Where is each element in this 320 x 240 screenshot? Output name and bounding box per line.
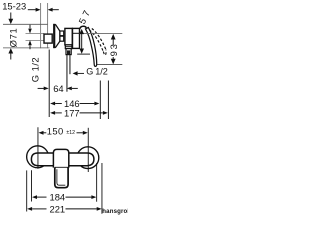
ext line right circle center: [87, 128, 89, 172]
ext line top (93): [80, 32, 123, 34]
ext line escutcheon bottom: [3, 47, 50, 49]
escutcheon cone: [55, 24, 60, 48]
svg-text:184: 184: [50, 192, 66, 203]
ext line x100: [99, 81, 101, 120]
svg-text:177: 177: [64, 108, 80, 119]
valve body: [73, 28, 80, 48]
lever (solid): [86, 27, 97, 66]
cartridge housing: [65, 28, 72, 45]
svg-text:±12: ±12: [66, 130, 75, 136]
ext line escutcheon top: [3, 23, 48, 25]
svg-text:93: 93: [108, 42, 119, 56]
pipe lines (grey): [26, 32, 45, 34]
small dim arrows G1/2 pipe: [29, 25, 31, 29]
dim 57: [79, 29, 84, 34]
transition collar: [65, 45, 72, 49]
body inner top line: [73, 32, 80, 34]
right escutcheon circle: [77, 147, 99, 169]
dim 146: [50, 102, 55, 106]
hose nipple: [66, 49, 71, 55]
svg-text:221: 221: [50, 203, 66, 214]
handle dome: [80, 26, 87, 29]
union nut small: [60, 31, 64, 41]
s-union nut: [44, 34, 52, 43]
label G 1/2 (right): [73, 71, 78, 75]
dim O71: [10, 13, 12, 20]
dim 184: [32, 195, 37, 199]
dim 93: [111, 34, 116, 40]
escutcheon face: [53, 24, 55, 48]
left escutcheon circle: [27, 146, 49, 168]
svg-text:G 1/2: G 1/2: [30, 57, 41, 82]
ext line left circle center: [37, 127, 39, 169]
ext line x108: [107, 81, 109, 120]
ext lines below: [30, 170, 32, 201]
lever (dashed alternate position): [89, 29, 106, 56]
svg-text:Ø71: Ø71: [7, 28, 18, 48]
svg-text:64: 64: [53, 83, 63, 94]
dim 150 +-12: [39, 131, 44, 135]
dim 177: [50, 111, 55, 115]
svg-text:150: 150: [47, 126, 64, 137]
wall construction line (right): [47, 3, 49, 48]
svg-text:G 1/2: G 1/2: [86, 67, 108, 77]
ext line x49: [48, 50, 50, 118]
dim 64: [38, 87, 44, 89]
dim 221: [27, 207, 32, 211]
ext line bottom (93): [97, 64, 122, 66]
body capsule: [31, 153, 94, 166]
svg-text:15-23: 15-23: [2, 0, 26, 11]
outlet pipe: [66, 55, 68, 92]
handle (front): [53, 149, 68, 167]
wall construction line (left): [40, 3, 42, 48]
dim 15-23 arrows: [28, 9, 59, 11]
svg-text:hansgrohe: hansgrohe: [102, 208, 128, 215]
